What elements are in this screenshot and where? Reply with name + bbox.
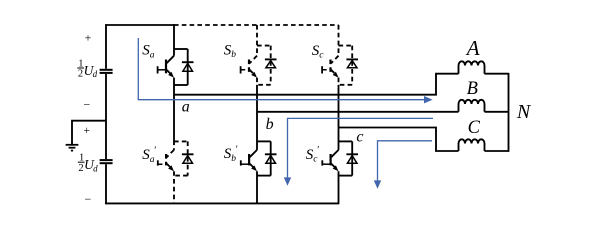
- label: 1/2 Ud of C2: [78, 153, 98, 174]
- wire: phase-a leg, dashed lower portion: [173, 141, 175, 204]
- wire: C to N: [485, 150, 509, 152]
- wire: top DC rail, solid part: [105, 24, 174, 26]
- diode of S_a (on): top stub wire: [174, 48, 188, 50]
- diode of S_b (off): triangle: [266, 61, 276, 68]
- diode of S_a' (off): top stub wire: [174, 140, 188, 142]
- diode of S_a' (off): vertical lead: [187, 141, 189, 175]
- wire: phase-a leg, solid upper portion: [173, 24, 175, 140]
- diode of S_b (off): vertical lead: [270, 46, 272, 85]
- diode of S_c (off): top stub wire: [339, 45, 353, 47]
- IGBT S_b' (on): body bar: [248, 154, 250, 165]
- svg-text:+: +: [85, 33, 92, 45]
- wire: left DC rail (vertical, broken at capacitors): [105, 24, 107, 204]
- IGBT S_a' (off): emitter arrowhead: [168, 165, 174, 171]
- diode of S_a (on): bottom stub wire: [174, 84, 188, 86]
- IGBT S_b' (on): gate lead: [241, 163, 249, 165]
- inductor C: [459, 139, 485, 151]
- IGBT S_b (off): gate tick: [240, 66, 242, 73]
- arrowhead of current path i_b: [284, 177, 291, 185]
- diode of S_b (off): bottom stub wire: [257, 84, 271, 86]
- IGBT S_b (off): emitter arrowhead: [251, 72, 257, 78]
- wire: phase-b leg, dashed upper portion: [256, 25, 258, 85]
- IGBT S_a (on): emitter arrowhead: [168, 72, 174, 78]
- IGBT S_c (off): gate lead: [322, 69, 330, 71]
- IGBT S_c (off): gate tick: [321, 66, 323, 73]
- wire: A to N: [485, 73, 509, 75]
- diode of S_c (off): vertical lead: [351, 46, 353, 85]
- IGBT S_a (on): gate lead: [158, 69, 166, 71]
- wire: neutral bus N: [508, 73, 510, 152]
- IGBT S_a' (off): body bar: [165, 154, 167, 165]
- svg-text:+: +: [84, 125, 91, 137]
- svg-text:c: c: [356, 128, 363, 145]
- diode of S_c' (on): triangle: [347, 156, 357, 164]
- arrowhead of current path i_c: [374, 180, 381, 188]
- diode of S_c' (on): top stub wire: [339, 140, 353, 142]
- svg-text:Sa′: Sa′: [142, 146, 156, 166]
- diode of S_a' (off): bottom stub wire: [174, 175, 188, 177]
- IGBT S_b' (on): collector-emitter path: [250, 150, 257, 168]
- capacitor C1 (upper 1/2 Ud): [100, 70, 113, 73]
- wire: phase c output to load C (with down-step): [339, 128, 459, 152]
- IGBT S_b (off): gate lead: [241, 69, 249, 71]
- IGBT S_c' (on): collector-emitter path: [331, 150, 338, 168]
- wire: ground branch from DC midpoint: [72, 121, 106, 144]
- wire: phase b output to load B: [257, 111, 459, 113]
- svg-text:a: a: [182, 99, 190, 116]
- svg-text:B: B: [467, 79, 478, 99]
- wire: bottom DC rail: [105, 202, 339, 204]
- IGBT S_c (off): emitter arrowhead: [333, 72, 339, 78]
- IGBT S_c (off): body bar: [329, 60, 331, 74]
- diode of S_c (off): triangle: [347, 61, 357, 68]
- wire: phase-c leg, solid lower portion: [338, 85, 340, 204]
- wire: B to N: [485, 111, 509, 113]
- svg-text:b: b: [266, 116, 274, 133]
- IGBT S_c' (on): gate tick: [321, 160, 323, 165]
- IGBT S_a (on): body bar: [165, 60, 167, 74]
- IGBT S_b' (on): emitter arrowhead: [251, 165, 257, 171]
- svg-text:C: C: [468, 118, 481, 138]
- svg-text:2: 2: [78, 163, 83, 174]
- IGBT S_b' (on): gate tick: [240, 160, 242, 165]
- diode of S_c (off): cathode bar: [346, 58, 358, 60]
- svg-text:d: d: [93, 69, 98, 79]
- label: 1/2 Ud of C1: [77, 59, 97, 80]
- current path i_a: from S_a down and right into load A: [138, 38, 424, 100]
- diode of S_b' (on): bottom stub wire: [257, 175, 271, 177]
- svg-text:−: −: [84, 97, 91, 111]
- IGBT S_a' (off): collector-emitter path: [167, 150, 174, 168]
- IGBT S_a' (off): gate tick: [157, 160, 159, 165]
- IGBT S_c' (on): gate lead: [322, 163, 330, 165]
- IGBT S_c' (on): emitter arrowhead: [333, 165, 339, 171]
- diode of S_a (on): vertical lead: [187, 49, 189, 85]
- diode of S_a (on): triangle: [183, 63, 193, 71]
- wire: phase-b leg, solid lower portion: [256, 85, 258, 204]
- IGBT S_a (on): gate tick: [157, 66, 159, 73]
- svg-text:d: d: [93, 163, 98, 173]
- capacitor C2 (lower 1/2 Ud): [100, 160, 113, 163]
- inductor B: [459, 100, 485, 112]
- wire: phase a output to load A (with up-step): [174, 74, 459, 95]
- IGBT S_c' (on): body bar: [330, 154, 332, 165]
- current path i_c return: from load C left then down into S_c': [378, 141, 433, 181]
- svg-text:−: −: [85, 192, 92, 206]
- svg-text:Sc: Sc: [312, 43, 325, 61]
- wire: top DC rail, dashed part: [174, 24, 339, 26]
- IGBT S_b (off): collector-emitter path: [250, 56, 257, 75]
- ground symbol: [66, 145, 79, 151]
- arrowhead of current path i_a: [424, 96, 433, 103]
- diode of S_c' (on): vertical lead: [351, 141, 353, 175]
- svg-text:2: 2: [78, 69, 83, 80]
- IGBT S_a (on): collector-emitter path: [167, 56, 174, 75]
- svg-text:Sb′: Sb′: [224, 145, 238, 165]
- diode of S_c (off): bottom stub wire: [339, 84, 353, 86]
- svg-text:N: N: [516, 101, 532, 123]
- svg-text:Sb: Sb: [224, 42, 237, 60]
- IGBT S_b (off): body bar: [248, 60, 250, 74]
- diode of S_a' (off): triangle: [183, 156, 193, 164]
- svg-text:Sa: Sa: [142, 43, 155, 61]
- IGBT S_c (off): collector-emitter path: [331, 56, 338, 75]
- diode of S_a (on): cathode bar: [182, 61, 194, 63]
- inductor A: [459, 61, 485, 73]
- diode of S_c' (on): bottom stub wire: [339, 175, 353, 177]
- wire: phase-c leg, dashed upper portion: [338, 25, 340, 85]
- svg-text:A: A: [465, 36, 480, 60]
- diode of S_c' (on): cathode bar: [346, 153, 358, 155]
- diode of S_b' (on): cathode bar: [265, 153, 277, 155]
- diode of S_b (off): top stub wire: [257, 45, 271, 47]
- diode of S_b' (on): top stub wire: [257, 140, 271, 142]
- IGBT S_a' (off): gate lead: [158, 163, 166, 165]
- diode of S_b' (on): triangle: [266, 156, 276, 164]
- diode of S_b' (on): vertical lead: [270, 141, 272, 175]
- svg-text:Sc′: Sc′: [306, 145, 320, 165]
- current path i_b return: from load B left then down into S_b': [288, 118, 434, 177]
- diode of S_a' (off): cathode bar: [182, 153, 194, 155]
- diode of S_b (off): cathode bar: [265, 58, 277, 60]
